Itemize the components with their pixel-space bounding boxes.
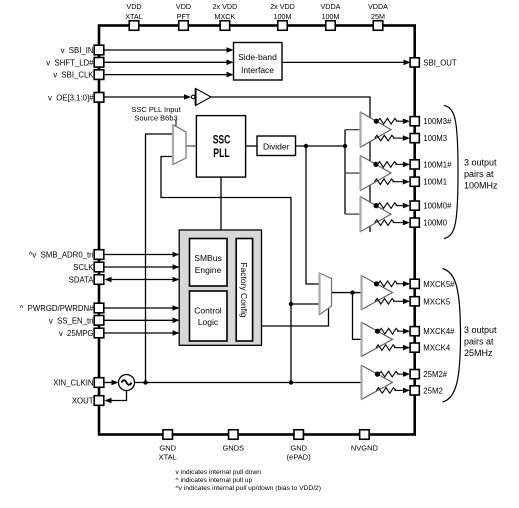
wire x291 to mux2 middle input — [291, 303, 320, 305]
pin ^v SMB_ADR0_tri (left) — [94, 250, 104, 260]
svg-text:(ePAD): (ePAD) — [287, 453, 312, 462]
junction x291/mux2 input — [289, 302, 293, 306]
svg-text:MXCK5: MXCK5 — [423, 297, 451, 306]
svg-text:100M0#: 100M0# — [423, 202, 452, 211]
svg-text:SDATA: SDATA — [69, 276, 95, 285]
junction divider/mux2 branch — [304, 144, 308, 148]
wire 25MPG to control logic — [104, 332, 178, 334]
buffer BMXCK4 — [362, 322, 393, 356]
svg-text:GNDS: GNDS — [222, 444, 244, 453]
wire oscillator to XOUT pin — [106, 390, 127, 400]
resistor B25M2 complement output — [376, 388, 396, 394]
resistor B100M3 complement output — [375, 135, 395, 141]
pin GND (ePAD) (bottom) — [294, 430, 304, 440]
brace 100MHz group — [444, 105, 458, 238]
svg-text:Side-band: Side-band — [238, 52, 277, 62]
junction B100M1 true output — [373, 162, 378, 167]
svg-text:VDD: VDD — [126, 2, 141, 11]
resistor B100M1 true output — [377, 162, 397, 168]
resistor B100M0 complement output — [375, 220, 395, 226]
svg-text:XOUT: XOUT — [72, 397, 94, 406]
mux MUX2 (25M source) — [320, 273, 332, 315]
pin SDATA (left) — [94, 275, 104, 285]
junction B100M0 true output — [374, 203, 379, 208]
svg-text:Divider: Divider — [263, 141, 290, 151]
svg-text:pairs at: pairs at — [464, 337, 494, 347]
wire divider branch down to mux2 top input — [306, 146, 320, 284]
pin 100M1# (right) — [410, 160, 419, 169]
wire XIN branch: up x=291 to y=197.5 across to mux1 input 2 — [161, 157, 291, 383]
svg-text:Factory Config: Factory Config — [239, 262, 249, 318]
resistor BMXCK5 complement output — [375, 299, 395, 305]
junction B25M2 true output — [375, 372, 380, 377]
wire side-band interface to SBI_OUT — [282, 61, 409, 63]
pin MXCK5 (right) — [410, 297, 419, 306]
svg-text:SBI_OUT: SBI_OUT — [423, 58, 457, 67]
svg-text:XTAL: XTAL — [125, 12, 142, 21]
resistor BMXCK4 complement output — [376, 345, 396, 351]
svg-text:SSC: SSC — [213, 135, 231, 147]
pin v SS_EN_tri (left) — [94, 316, 104, 326]
svg-text:v SBI_IN: v SBI_IN — [61, 46, 94, 55]
svg-text:100M: 100M — [322, 12, 340, 21]
wire SSC PLL down to SMBus block — [220, 177, 222, 230]
svg-text:^v SMB_ADR0_tri: ^v SMB_ADR0_tri — [29, 251, 94, 260]
SSC PLL block U-PLL — [196, 116, 245, 178]
svg-text:100M1#: 100M1# — [423, 160, 452, 169]
svg-text:2x VDD: 2x VDD — [213, 2, 238, 11]
wire SDATA bidirectional — [106, 279, 178, 281]
pin v OE[3,1:0]# (left) — [94, 93, 104, 103]
svg-text:^ PWRGD/PWRDN#: ^ PWRGD/PWRDN# — [20, 304, 94, 313]
svg-text:SMBus: SMBus — [194, 253, 221, 263]
wire stub to buffer A3 — [345, 213, 361, 215]
pin SBI_OUT (right) — [410, 58, 419, 67]
svg-text:100M0: 100M0 — [423, 219, 448, 228]
svg-text:25M2#: 25M2# — [423, 370, 448, 379]
pin VDDA 25M (top) — [373, 21, 383, 31]
svg-text:v indicates internal pull down: v indicates internal pull down — [176, 469, 262, 476]
svg-text:100M1: 100M1 — [423, 178, 447, 187]
svg-text:3 output: 3 output — [464, 325, 497, 335]
pin XOUT (left) — [94, 396, 104, 406]
pin NVGND (bottom) — [360, 430, 370, 440]
junction mux2 output — [350, 290, 354, 294]
buffer BMXCK5 — [362, 276, 393, 310]
pin XIN_CLKIN (left) — [94, 378, 104, 388]
resistor B25M2 true output — [379, 371, 399, 377]
svg-text:XIN_CLKIN: XIN_CLKIN — [53, 379, 93, 388]
pin ^ PWRGD/PWRDN# (left) — [94, 303, 104, 313]
svg-text:NVGND: NVGND — [351, 444, 379, 453]
svg-text:MXCK: MXCK — [215, 12, 236, 21]
pin 25M2# (right) — [410, 370, 419, 379]
svg-text:VDDA: VDDA — [368, 2, 388, 11]
junction B100M3 true output — [374, 119, 379, 124]
svg-text:XTAL: XTAL — [159, 453, 177, 462]
junction BMXCK5 true output — [374, 281, 379, 286]
resistor BMXCK4 true output — [379, 328, 399, 334]
svg-text:v 25MPG: v 25MPG — [59, 329, 94, 338]
svg-text:SCLK: SCLK — [73, 263, 94, 272]
svg-text:PLL: PLL — [213, 148, 229, 160]
wire SBI_IN to side-band interface — [104, 49, 232, 51]
pin v SBI_CLK (left) — [94, 70, 104, 80]
wire SSC PLL to Divider — [246, 145, 257, 147]
SMBus/Control gray block — [179, 230, 261, 345]
svg-text:100M3: 100M3 — [423, 134, 447, 143]
svg-text:100MHz: 100MHz — [464, 181, 498, 191]
SMBus Engine block U-SMB — [190, 239, 228, 287]
svg-text:PFT: PFT — [177, 12, 191, 21]
svg-text:3 output: 3 output — [464, 158, 497, 168]
wire Divider output to 100M buffer feed — [296, 145, 346, 147]
svg-text:Interface: Interface — [241, 65, 274, 75]
junction BMXCK4 true output — [375, 329, 380, 334]
svg-text:pairs at: pairs at — [464, 169, 494, 179]
svg-text:GND: GND — [290, 444, 307, 453]
pin SCLK (left) — [94, 262, 104, 272]
wire stub to buffer A1 — [345, 129, 361, 131]
brace 25MHz group — [443, 269, 461, 403]
wire SHFT_LD# to side-band interface — [104, 61, 232, 63]
oscillator X1 — [119, 375, 135, 391]
svg-text:^v indicates internal pull up/: ^v indicates internal pull up/down (bias… — [176, 485, 322, 492]
pin 25M2 (right) — [410, 386, 419, 395]
svg-text:v SHFT_LD#: v SHFT_LD# — [46, 58, 94, 67]
Factory Config block — [236, 239, 252, 342]
svg-text:v SBI_CLK: v SBI_CLK — [53, 71, 94, 80]
pin 100M0# (right) — [410, 201, 419, 210]
pin MXCK4 (right) — [410, 343, 419, 352]
pin 100M3 (right) — [410, 134, 419, 143]
svg-text:VDD: VDD — [176, 2, 191, 11]
wire OE enable net: pin to inverter, across and down through 100M buffers — [104, 96, 189, 98]
Side-band Interface block — [234, 43, 283, 81]
resistor B100M3 true output — [378, 118, 398, 124]
resistor B100M1 complement output — [374, 179, 394, 185]
buffer B100M0 — [361, 197, 392, 232]
junction XIN/mux1 — [143, 380, 147, 384]
svg-text:25M2: 25M2 — [423, 386, 443, 395]
mux MUX1 (SSC PLL input source) — [173, 125, 186, 165]
svg-text:GND: GND — [159, 444, 176, 453]
svg-text:100M: 100M — [274, 12, 292, 21]
svg-text:25M: 25M — [371, 12, 385, 21]
Control Logic block — [190, 291, 228, 341]
pin 2x VDD 100M (top) — [278, 21, 288, 31]
pin 100M0 (right) — [410, 218, 419, 227]
svg-text:Control: Control — [194, 306, 222, 316]
svg-text:MXCK4: MXCK4 — [423, 344, 451, 353]
pin VDD XTAL (top) — [129, 21, 139, 31]
svg-text:Engine: Engine — [195, 265, 222, 275]
Divider block — [257, 136, 296, 156]
pin 100M1 (right) — [410, 177, 419, 186]
chip outline — [99, 26, 415, 435]
wire SBI_CLK to side-band interface — [104, 74, 232, 76]
resistor B100M0 true output — [378, 203, 398, 209]
svg-text:25MHz: 25MHz — [464, 348, 493, 358]
pin MXCK4# (right) — [410, 327, 419, 336]
svg-text:Source B6b3: Source B6b3 — [134, 114, 177, 123]
pin GNDS (bottom) — [229, 430, 239, 440]
wire XIN_CLKIN pin to oscillator — [104, 382, 117, 384]
junction divider/feed — [343, 144, 347, 148]
wire XIN to mux1 input 1 — [146, 134, 174, 383]
buffer B100M1 — [361, 156, 392, 191]
wire mux1 output to SSC PLL — [186, 145, 197, 147]
buffer B100M3 — [361, 112, 392, 147]
wire PWRGD/PWRDN# to control logic — [104, 307, 178, 309]
svg-text:v OE[3,1:0]#: v OE[3,1:0]# — [48, 93, 94, 102]
wire SMB_ADR0_tri to SMBus engine — [104, 254, 178, 256]
svg-text:2x VDD: 2x VDD — [270, 2, 295, 11]
pin VDDA 100M (top) — [326, 21, 336, 31]
pin 2x VDD MXCK (top) — [220, 21, 230, 31]
svg-text:100M3#: 100M3# — [423, 117, 452, 126]
wire mux2 output to 25M buffers — [332, 292, 362, 294]
pin VDD PFT (top) — [179, 21, 189, 31]
svg-text:Logic: Logic — [198, 317, 219, 327]
buffer B25M2 — [362, 365, 393, 399]
wire XIN net: osc to junction, to 25M2 buffer — [135, 382, 362, 384]
wire stub to buffer A2 — [345, 172, 361, 174]
pin GND XTAL (bottom) — [163, 430, 173, 440]
wire SCLK to SMBus engine — [104, 266, 178, 268]
svg-text:VDDA: VDDA — [321, 2, 341, 11]
svg-text:MXCK5#: MXCK5# — [423, 280, 455, 289]
wire control logic to mux2 select — [262, 309, 329, 327]
wire SS_EN_tri to control logic — [104, 319, 178, 321]
svg-text:v SS_EN_tri: v SS_EN_tri — [49, 316, 94, 325]
svg-text:^ indicates internal pull up: ^ indicates internal pull up — [176, 477, 253, 484]
pin v 25MPG (left) — [94, 328, 104, 338]
inverter/buffer on OE line — [191, 95, 195, 99]
wire 100M feed vertical with stubs to buffers — [344, 130, 346, 214]
resistor BMXCK5 true output — [378, 281, 398, 287]
pin MXCK5# (right) — [410, 279, 419, 288]
svg-text:MXCK4#: MXCK4# — [423, 327, 455, 336]
pin 100M3# (right) — [410, 117, 419, 126]
pin v SHFT_LD# (left) — [94, 58, 104, 68]
junction XIN/x291 — [289, 380, 293, 384]
pin v SBI_IN (left) — [94, 45, 104, 55]
